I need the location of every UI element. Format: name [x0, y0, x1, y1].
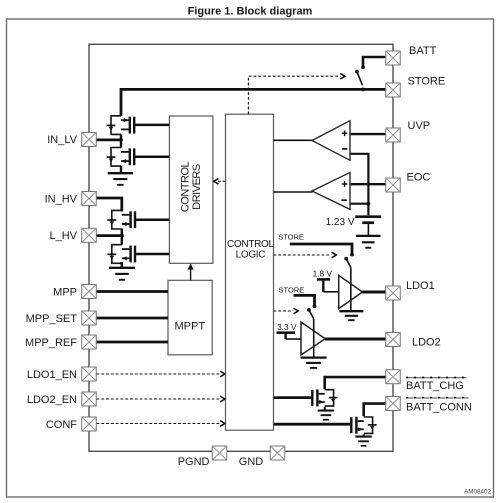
svg-text:EOC: EOC	[407, 172, 431, 184]
svg-text:IN_LV: IN_LV	[47, 134, 77, 146]
svg-text:1.23 V: 1.23 V	[326, 217, 355, 228]
svg-text:3.3 V: 3.3 V	[277, 322, 297, 332]
svg-text:STORE: STORE	[278, 233, 304, 242]
svg-text:STORE: STORE	[408, 76, 446, 88]
svg-text:PGND: PGND	[178, 456, 210, 468]
svg-text:1.8 V: 1.8 V	[313, 269, 333, 279]
svg-text:Figure 1. Block diagram: Figure 1. Block diagram	[188, 6, 313, 18]
svg-text:MPPT: MPPT	[175, 320, 206, 332]
svg-text:MPP_REF: MPP_REF	[25, 337, 77, 349]
svg-text:CONTROLDRIVERS: CONTROLDRIVERS	[180, 161, 203, 212]
svg-text:IN_HV: IN_HV	[45, 194, 78, 206]
svg-text:BATT_CHG: BATT_CHG	[406, 380, 464, 392]
svg-text:LDO1: LDO1	[406, 280, 435, 292]
svg-text:LOGIC: LOGIC	[236, 250, 266, 261]
svg-text:GND: GND	[239, 456, 264, 468]
svg-text:LDO1_EN: LDO1_EN	[27, 369, 77, 381]
svg-text:LDO2: LDO2	[412, 337, 441, 349]
svg-text:BATT: BATT	[409, 45, 437, 57]
svg-text:BATT_CONN: BATT_CONN	[406, 402, 472, 414]
svg-text:LDO2_EN: LDO2_EN	[27, 394, 77, 406]
svg-text:L_HV: L_HV	[49, 230, 77, 242]
svg-text:MPP: MPP	[53, 287, 77, 299]
svg-text:CONF: CONF	[46, 419, 77, 431]
svg-text:CONTROL: CONTROL	[227, 239, 275, 250]
svg-text:STORE: STORE	[279, 285, 305, 294]
svg-text:MPP_SET: MPP_SET	[26, 313, 78, 325]
svg-text:UVP: UVP	[408, 120, 431, 132]
svg-text:AM08402: AM08402	[464, 489, 491, 496]
